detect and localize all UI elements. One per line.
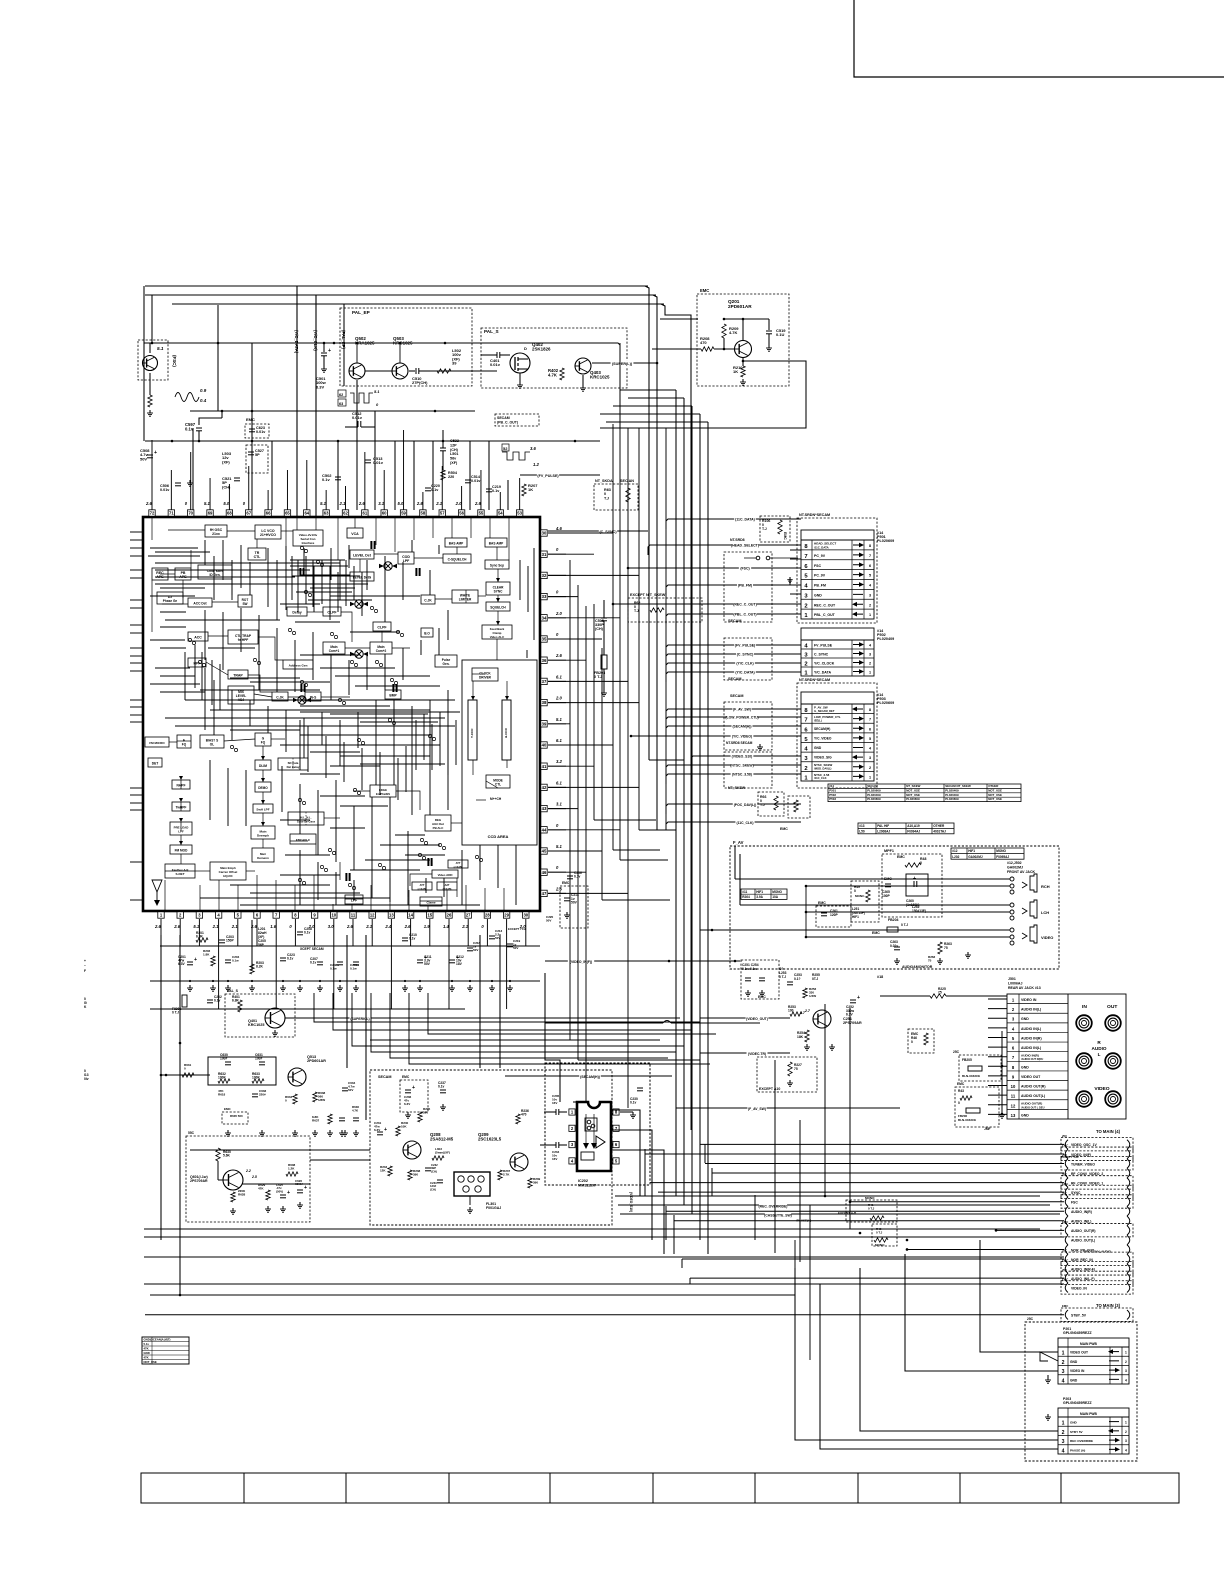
svg-text:P502: P502 — [829, 793, 836, 797]
svg-text:18V: 18V — [456, 962, 463, 966]
transistor Q402 FET — [510, 353, 530, 373]
IC internal block Y-CCD — [468, 700, 477, 760]
jumper symbol near P501 pin7 — [756, 556, 760, 560]
svg-text:44: 44 — [542, 827, 547, 832]
capacitor C514 — [465, 479, 471, 481]
svg-text:8: 8 — [869, 544, 871, 548]
wire verticals joining TO MAIN pills — [644, 1149, 646, 1196]
svg-text:(PBL_C_OUT): (PBL_C_OUT) — [733, 613, 756, 617]
svg-text:/L_SECAM_DET: /L_SECAM_DET — [814, 709, 835, 713]
svg-text:PC_9V: PC_9V — [814, 574, 826, 578]
J501 left wire stubs — [988, 998, 1007, 1000]
svg-text:75: 75 — [928, 959, 932, 963]
svg-text:B.O: B.O — [424, 632, 430, 636]
IC internal block clock driver — [472, 668, 498, 681]
svg-text:13: 13 — [1011, 1113, 1016, 1118]
grounds Q513 cluster — [227, 1130, 229, 1133]
svg-text:2.6: 2.6 — [404, 924, 412, 929]
svg-text:PB ALC: PB ALC — [433, 826, 445, 830]
transistor Q251 — [813, 1010, 831, 1028]
svg-text:SECAM: SECAM — [378, 1075, 392, 1079]
IC202 pins — [569, 1109, 575, 1115]
resistor R638 — [313, 1092, 317, 1102]
svg-text:ATT: ATT — [420, 883, 425, 887]
svg-text:TO MAIN (4): TO MAIN (4) — [1096, 1129, 1121, 1134]
svg-text:OTHER: OTHER — [988, 784, 999, 788]
ground fav right — [967, 952, 969, 955]
module EMC R46 dashed — [908, 1029, 934, 1053]
svg-text:OUT: OUT — [1107, 1004, 1117, 1010]
capacitor C512 — [357, 421, 359, 427]
svg-text:2.7K: 2.7K — [503, 1172, 510, 1176]
svg-text:AUDIO IN(L): AUDIO IN(L) — [1021, 1027, 1041, 1031]
svg-text:0.01v: 0.01v — [471, 479, 481, 483]
svg-text:0 T.J: 0 T.J — [876, 1230, 883, 1234]
wire drops from IC bottom pins — [160, 935, 162, 981]
svg-text:+: + — [154, 450, 157, 456]
svg-text:6.1: 6.1 — [556, 738, 563, 743]
svg-text:FQ: FQ — [182, 743, 187, 747]
svg-text:53: 53 — [517, 511, 522, 516]
svg-text:EMC: EMC — [1062, 1182, 1068, 1186]
svg-text:1.8K: 1.8K — [203, 952, 210, 956]
svg-text:SwH LPF: SwH LPF — [256, 808, 269, 812]
resistor R210 — [742, 358, 744, 366]
svg-text:EMC: EMC — [1062, 1220, 1068, 1224]
IC internal block DET — [148, 758, 162, 767]
svg-text:(-10dB): (-10dB) — [418, 887, 427, 891]
wire Q201 collector — [724, 318, 769, 320]
ground Q403 — [582, 375, 584, 385]
wire bus left vertical lines — [143, 286, 145, 441]
node (FV_PULSE) wire and label — [666, 645, 801, 655]
svg-text:VIDEO_OSC_1V: VIDEO_OSC_1V — [1071, 1143, 1097, 1147]
node TUNER_VIDEO cable pin — [1061, 1157, 1133, 1170]
wire long staircase right — [545, 973, 560, 1102]
svg-text:+: + — [857, 995, 860, 1001]
svg-text:2.0: 2.0 — [455, 501, 463, 506]
IC internal block Main Com1 — [323, 642, 345, 654]
svg-text:MONO: MONO — [865, 1196, 875, 1200]
transistor Q503 — [392, 363, 408, 379]
svg-text:11: 11 — [351, 913, 356, 918]
svg-text:#11: #11 — [742, 890, 747, 894]
filter FL301 — [454, 1172, 490, 1196]
svg-text:5.1v: 5.1v — [144, 1342, 150, 1346]
svg-text:+: + — [194, 957, 197, 963]
svg-text:0.1v: 0.1v — [492, 489, 500, 493]
IC internal block BMP — [385, 690, 401, 699]
svg-text:PAUSE (H): PAUSE (H) — [1070, 1448, 1085, 1452]
svg-text:2SK1826: 2SK1826 — [532, 347, 551, 352]
svg-text:34: 34 — [542, 615, 547, 620]
node MOD_DAV label — [666, 804, 801, 814]
svg-text:/MOD_DAV(L): /MOD_DAV(L) — [814, 766, 832, 770]
transistor Q403 — [575, 358, 591, 374]
svg-text:12K: 12K — [380, 1168, 386, 1172]
svg-text:T.J: T.J — [604, 496, 609, 500]
IC internal block SQUELCH — [486, 602, 510, 611]
svg-text:CTL: CTL — [254, 555, 262, 559]
svg-text:PBL_C_OUT: PBL_C_OUT — [814, 613, 836, 617]
svg-text:PL020609: PL020609 — [877, 539, 894, 543]
svg-text:DET: DET — [152, 762, 159, 766]
svg-text:1: 1 — [869, 671, 871, 675]
svg-text:25C: 25C — [1062, 1268, 1067, 1272]
svg-text:10: 10 — [1011, 1084, 1016, 1089]
svg-text:2.2: 2.2 — [245, 1169, 251, 1173]
table #12 L202 — [951, 848, 1024, 859]
node FSC cable pin — [1061, 1195, 1133, 1208]
svg-text:56: 56 — [459, 511, 464, 516]
svg-text:5: 5 — [869, 737, 871, 741]
svg-text:0 T.J: 0 T.J — [779, 975, 786, 979]
svg-text:4: 4 — [1062, 1448, 1065, 1454]
svg-text:6: 6 — [869, 564, 871, 568]
svg-text:GPL0N0459REZZ: GPL0N0459REZZ — [1063, 1401, 1092, 1405]
svg-text:5.1: 5.1 — [193, 924, 200, 929]
IC internal mixer symbols — [355, 600, 363, 608]
svg-text:OTHER: OTHER — [933, 824, 945, 828]
svg-text:2: 2 — [869, 766, 871, 770]
svg-text:2.1: 2.1 — [212, 924, 220, 929]
resistor R237 — [498, 1170, 502, 1180]
svg-text:Com+1: Com+1 — [329, 649, 340, 653]
svg-text:EXCEPT N T_SKEW: EXCEPT N T_SKEW — [630, 593, 666, 597]
svg-text:68: 68 — [227, 511, 232, 516]
capacitor C632 — [252, 1093, 258, 1095]
IC internal block MIX LEVEL ADJ — [228, 686, 254, 704]
svg-text:0.4: 0.4 — [200, 398, 207, 403]
svg-text:VIDEO IN: VIDEO IN — [1070, 1369, 1085, 1373]
capacitor C232 — [425, 1167, 431, 1169]
svg-text:/11C_CLK: /11C_CLK — [814, 776, 827, 780]
IC internal block ROT SW — [238, 595, 252, 607]
node VIDEO_IN(F) label — [545, 960, 740, 962]
node (PB_FM) wire and label — [666, 585, 801, 595]
svg-text:47K: 47K — [144, 1356, 149, 1360]
resistor below Q1 — [148, 395, 152, 407]
wire risers from F_AV/J501 to TO MAIN pills — [754, 1195, 756, 1240]
IC internal block Sync Sep — [485, 560, 509, 569]
IC internal block ATT1 — [412, 882, 432, 890]
svg-text:PAL HIF: PAL HIF — [877, 824, 889, 828]
svg-text:F0095AJ: F0095AJ — [996, 855, 1009, 859]
transistor Q1 — [143, 356, 158, 371]
resistor R209 — [722, 324, 726, 338]
svg-text:2.1: 2.1 — [461, 924, 469, 929]
IC internal block PB APE — [175, 568, 191, 580]
svg-text:10A: 10A — [772, 895, 779, 899]
svg-text:EMC: EMC — [818, 901, 826, 905]
svg-text:GND: GND — [1070, 1378, 1078, 1382]
svg-text:55: 55 — [479, 511, 484, 516]
front av jack RCH — [1010, 877, 1014, 881]
svg-text:25C: 25C — [1027, 1317, 1034, 1321]
svg-text:SYNC: SYNC — [1071, 1191, 1081, 1195]
svg-text:390: 390 — [423, 1110, 428, 1114]
svg-text:EMC: EMC — [897, 855, 905, 859]
resistor R208 — [701, 347, 714, 351]
IC internal block CCD area — [462, 660, 537, 845]
node Y/C_CLK vertical wire — [315, 295, 317, 517]
svg-text:KRA1025: KRA1025 — [355, 341, 375, 346]
svg-text:A3T: A3T — [445, 883, 450, 887]
svg-text:3: 3 — [1125, 1439, 1127, 1443]
svg-text:LPF: LPF — [403, 559, 410, 563]
svg-text:15: 15 — [427, 913, 432, 918]
svg-text:GND: GND — [144, 1351, 150, 1355]
svg-text:F001GAJ: F001GAJ — [486, 1206, 501, 1210]
svg-text:M++CH: M++CH — [490, 797, 502, 801]
node AUDIO_IN(L-F) cable pin — [1061, 1271, 1133, 1284]
svg-text:0.01v: 0.01v — [256, 430, 266, 434]
resistor R633 — [252, 1079, 264, 1083]
node (SECAM(H)) wire and label — [666, 726, 801, 736]
svg-text:2PS709AR: 2PS709AR — [190, 1179, 208, 1183]
svg-text:NOT_USE: NOT_USE — [988, 788, 1002, 792]
node C_SYNC label — [548, 530, 648, 532]
svg-text:10: 10 — [331, 913, 336, 918]
svg-text:6.3V: 6.3V — [316, 384, 325, 389]
IC internal block COD LPF — [398, 552, 414, 564]
svg-text:#18: #18 — [877, 975, 883, 979]
resistor R235 — [418, 1112, 422, 1122]
svg-text:AUDIO&MONITOR: AUDIO&MONITOR — [902, 965, 933, 969]
svg-text:2.0: 2.0 — [555, 611, 563, 616]
wire junction column front jacks — [805, 886, 807, 937]
resistor R238 — [408, 1170, 412, 1180]
svg-text:50V: 50V — [424, 962, 431, 966]
wire vertical bundle right of IC — [569, 560, 571, 1040]
capacitor C513 — [365, 459, 371, 461]
sine wave symbol — [175, 393, 199, 402]
transistor Q401 — [265, 1008, 285, 1028]
node RF_CONV_VIDEO_1 cable pin — [1061, 1176, 1133, 1189]
module MONO R41 dashed — [846, 1200, 897, 1222]
svg-text:#14: #14 — [829, 784, 834, 788]
resistor R207 — [522, 484, 526, 496]
IC internal block 1/2 phase — [157, 592, 183, 604]
resistor R234 — [388, 1166, 392, 1176]
svg-text:(11C_DATA): (11C_DATA) — [735, 518, 755, 522]
svg-text:Y/C_CLOCK: Y/C_CLOCK — [814, 662, 835, 666]
module EXCEPT NT_SKEW dashed — [628, 598, 702, 622]
svg-text:Video ALC: Video ALC — [490, 635, 505, 639]
node AUDIO_IN(R-F) cable pin — [1061, 1262, 1133, 1275]
wire P203 feeds — [794, 1240, 796, 1315]
capacitor C515 — [601, 617, 607, 619]
svg-text:Video ADD: Video ADD — [438, 873, 453, 877]
node VIDEO_OSC_1V cable pin — [1061, 1138, 1133, 1151]
svg-text:F_AV: F_AV — [733, 840, 744, 845]
svg-text:0.1v: 0.1v — [322, 477, 331, 482]
svg-text:R618: R618 — [218, 1092, 226, 1096]
svg-text:63: 63 — [324, 511, 329, 516]
svg-text:1: 1 — [869, 613, 871, 617]
wire FSC emitter — [149, 373, 151, 395]
capacitor C519 — [768, 319, 770, 330]
svg-text:4.7K: 4.7K — [548, 372, 557, 377]
svg-text:2.4: 2.4 — [384, 924, 392, 929]
node FV_PULSE label — [520, 474, 600, 476]
IC internal block CJK — [421, 595, 435, 604]
svg-text:0.1v: 0.1v — [310, 961, 317, 965]
IC internal block BIAS — [200, 735, 224, 748]
svg-text:61: 61 — [363, 511, 368, 516]
IC internal block LEVEL DetG — [350, 572, 374, 581]
svg-text:SECAM: SECAM — [728, 677, 742, 681]
capacitor C501 — [323, 343, 325, 352]
svg-text:XCEPT SECAM: XCEPT SECAM — [300, 947, 324, 951]
IC internal block EDGE emphasis — [370, 785, 396, 797]
IC internal block fH OSC — [205, 525, 227, 537]
svg-text:J501: J501 — [1008, 977, 1016, 981]
svg-text:FSC: FSC — [1071, 1201, 1078, 1205]
svg-text:2.6: 2.6 — [555, 653, 563, 658]
capacitor C634 — [342, 1087, 348, 1089]
table connector usage matrix — [828, 784, 1021, 802]
wire stubs entering IC from page left edge — [130, 531, 144, 533]
svg-text:37: 37 — [542, 679, 547, 684]
module NT wiring dash box around IC202 — [545, 1063, 650, 1185]
IC internal block main emph — [210, 862, 246, 880]
svg-text:2.0: 2.0 — [555, 696, 563, 701]
svg-text:60: 60 — [382, 511, 387, 516]
capacitor C630 — [225, 1061, 231, 1063]
svg-text:5.6K: 5.6K — [223, 1154, 231, 1158]
svg-text:64: 64 — [304, 511, 309, 516]
node SYNC cable pin — [1061, 1185, 1133, 1198]
node RF_CONV_VIDEO_2 cable pin — [1065, 1168, 1068, 1178]
svg-text:100#: 100# — [255, 1057, 262, 1061]
wire PAL_EP out — [465, 370, 497, 372]
svg-text:6: 6 — [869, 727, 871, 731]
capacitor C260 — [906, 874, 928, 896]
svg-text:1/8W: 1/8W — [318, 1098, 325, 1102]
svg-text:(REC_OVERRIDE): (REC_OVERRIDE) — [759, 1205, 788, 1209]
svg-text:Y-CCD: Y-CCD — [470, 728, 474, 738]
svg-text:220: 220 — [448, 475, 454, 479]
svg-text:4001TAJ: 4001TAJ — [933, 829, 946, 833]
svg-text:EMC: EMC — [1062, 1144, 1068, 1148]
svg-text:47: 47 — [542, 891, 547, 896]
svg-text:NT.SRD8 SECAM: NT.SRD8 SECAM — [726, 741, 753, 745]
capacitor C506 — [175, 482, 181, 484]
svg-text:EMC: EMC — [1062, 1304, 1068, 1308]
svg-text:16V: 16V — [552, 1101, 557, 1105]
svg-text:LEVEL Det: LEVEL Det — [353, 554, 372, 558]
resistor R203 — [250, 964, 254, 974]
svg-text:STBY_5V: STBY_5V — [1071, 1314, 1087, 1318]
svg-text:AUDIO_IN(L-F): AUDIO_IN(L-F) — [1071, 1277, 1095, 1281]
svg-text:18K: 18K — [797, 1035, 804, 1039]
resistor R240 — [396, 1126, 400, 1136]
svg-text:3: 3 — [869, 756, 871, 760]
svg-text:0.1?: 0.1? — [794, 977, 801, 981]
svg-text:EMC: EMC — [224, 1107, 232, 1111]
svg-text:0.1v: 0.1v — [574, 875, 581, 879]
svg-text:DEMO: DEMO — [258, 786, 268, 790]
svg-text:SECAM NT_SKEW: SECAM NT_SKEW — [945, 784, 971, 788]
node (11C_DATA) wire and label — [666, 519, 801, 529]
svg-text:(Y/C_VIDEO): (Y/C_VIDEO) — [732, 735, 752, 739]
svg-text:EMC: EMC — [872, 931, 880, 935]
svg-text:38: 38 — [542, 700, 547, 705]
svg-text:0.1U: 0.1U — [776, 332, 785, 337]
svg-text:62: 62 — [339, 393, 343, 397]
svg-text:(PB_FM): (PB_FM) — [738, 584, 752, 588]
capacitor C216 — [567, 875, 573, 877]
IC internal block H-CCD — [502, 700, 511, 760]
svg-text:FM MICRO: FM MICRO — [149, 741, 165, 745]
svg-text:4: 4 — [1125, 1378, 1127, 1382]
svg-text:F: F — [84, 969, 86, 973]
svg-text:AUDIO IN(L): AUDIO IN(L) — [1021, 1008, 1041, 1012]
ground Q402 source — [519, 373, 521, 382]
node VIDEO_IN cable pin — [1061, 1281, 1133, 1294]
wire bus center vertical lines — [675, 390, 677, 1196]
connector P503 table — [797, 683, 877, 788]
svg-text:2: 2 — [1062, 1430, 1065, 1436]
svg-text:EMC: EMC — [783, 532, 787, 540]
svg-text:REC_C_OUT: REC_C_OUT — [814, 603, 836, 607]
svg-text:SECAM: SECAM — [867, 784, 878, 788]
resistor R252 — [803, 988, 807, 998]
IC202 internal symbols — [585, 1118, 597, 1131]
transistor Q201 — [735, 341, 752, 358]
svg-text:2SC1623L5: 2SC1623L5 — [478, 1137, 502, 1142]
svg-text:7: 7 — [869, 554, 871, 558]
svg-text:25C: 25C — [953, 1050, 960, 1054]
svg-text:FV_PULSE: FV_PULSE — [814, 644, 833, 648]
svg-text:(11C_CLK): (11C_CLK) — [736, 821, 753, 825]
svg-text:5.1: 5.1 — [556, 844, 563, 849]
svg-text:REC OVERRIDE: REC OVERRIDE — [1070, 1439, 1093, 1443]
svg-text:#12,J502: #12,J502 — [1007, 861, 1022, 865]
svg-text:0T.J: 0T.J — [812, 977, 818, 981]
svg-text:2: 2 — [1125, 1430, 1127, 1434]
wire Q201 output loop — [742, 360, 745, 363]
svg-text:390: 390 — [533, 1180, 538, 1184]
node AUDIO_OUT(L) cable pin — [1065, 1235, 1068, 1245]
transistor Q208 — [403, 1141, 421, 1159]
svg-text:VIDEO: VIDEO — [1094, 1086, 1109, 1092]
IC internal block TR CTL — [248, 548, 266, 560]
IC internal block serial interface — [293, 530, 323, 546]
svg-text:/AUDIO OUT L DEU: /AUDIO OUT L DEU — [1021, 1105, 1045, 1109]
svg-text:1: 1 — [869, 775, 871, 779]
svg-text:FB205: FB205 — [962, 1058, 972, 1062]
svg-text:VIDEO OUT: VIDEO OUT — [1021, 1075, 1041, 1079]
svg-text:0 T.J: 0 T.J — [594, 675, 602, 679]
wire Q502-Q503 — [365, 370, 392, 372]
wire bus right vertical drop from top lines — [645, 286, 649, 760]
capacitors near R637 — [339, 1117, 345, 1119]
svg-text:(VIDEC.TR): (VIDEC.TR) — [748, 1052, 766, 1056]
IC internal block video add — [432, 870, 458, 878]
svg-text:100P: 100P — [882, 894, 890, 898]
svg-text:(NTSC_3.58): (NTSC_3.58) — [732, 773, 752, 777]
svg-text:+: + — [412, 1085, 415, 1091]
svg-text:62: 62 — [343, 511, 348, 516]
capacitor C597 — [196, 427, 202, 429]
svg-text:5.1: 5.1 — [556, 717, 563, 722]
wire top elbows joining center verticals — [620, 389, 676, 391]
node 11C_CLK label — [666, 822, 801, 830]
svg-text:(POC_DAV(L)): (POC_DAV(L)) — [734, 803, 757, 807]
IC internal block NL gase — [288, 812, 324, 825]
